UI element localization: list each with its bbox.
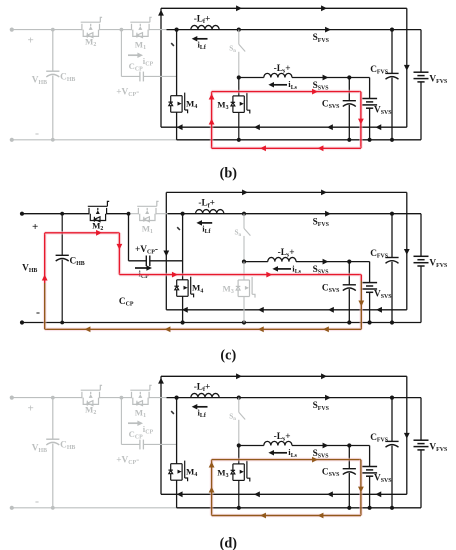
wire M4 drain vertical (b)	[176, 30, 178, 96]
wire M4 source vertical	[176, 480, 178, 508]
inductor L_f (c)	[196, 210, 224, 214]
brown arrow left	[258, 326, 264, 332]
wire C_CP branch vertical	[120, 398, 122, 445]
red path mid horizontal (c)	[119, 273, 361, 277]
brown arrow left	[165, 326, 171, 332]
red path arrow right	[96, 230, 102, 236]
node M3 source on bottom rail	[237, 138, 241, 142]
arrow on input rail	[325, 27, 331, 33]
node bottom-left V_HB - terminal	[20, 320, 24, 324]
transistor M4 (b)	[168, 93, 187, 114]
svg-text:iLs: iLs	[288, 447, 297, 459]
svg-text:VSVS: VSVS	[374, 105, 392, 116]
node C_HB top	[60, 212, 64, 216]
loop arrow left	[260, 145, 266, 151]
loop arrow down	[358, 119, 364, 125]
red path V_HB+ vertical (c)	[43, 233, 47, 283]
transistor M2 (b)	[81, 17, 102, 37]
svg-text:VFVS: VFVS	[429, 442, 448, 453]
wire outer left vertical (c)	[165, 192, 167, 309]
node S switch top	[237, 28, 241, 32]
wire inner return rail (d)	[161, 493, 407, 495]
svg-text:M1: M1	[135, 39, 146, 51]
wire top rail circuit (b)	[161, 7, 407, 9]
capacitor C_CP plates	[145, 256, 147, 267]
node V_HB + terminal	[10, 396, 14, 400]
node L_s left / M3 drain	[242, 260, 246, 264]
node C_FVS top	[390, 396, 394, 400]
current arrow i_CP	[128, 422, 140, 424]
node V_HB + terminal	[20, 212, 24, 216]
current loop right vertical (b)	[359, 92, 363, 149]
arrow on top rail	[321, 5, 327, 11]
wire input rail gray segment through M1	[129, 213, 139, 215]
wire bottom rail left segment (b)	[12, 139, 177, 141]
inductor L_f (b)	[191, 25, 219, 29]
arrow on L_s rail	[323, 259, 329, 265]
wire input rail gray segment / V_HB+ rail (b)	[12, 29, 82, 31]
brown return bottom horizontal (c)	[45, 327, 362, 331]
capacitor C_HB (d)	[52, 398, 54, 440]
svg-text:VHB: VHB	[32, 443, 47, 454]
wire inner return rail (b)	[161, 126, 407, 128]
node M3 source on bottom rail	[237, 506, 241, 510]
arrow left on inner return rail	[375, 124, 381, 130]
svg-text:-Lf+: -Lf+	[198, 199, 215, 210]
wire C_CP branch horizontal	[129, 260, 147, 262]
inductor L_s (c)	[268, 257, 296, 261]
wire outer right vertical (c)	[406, 192, 408, 309]
current loop top horizontal (d)	[212, 458, 361, 462]
current arrow i_CP	[128, 54, 140, 56]
arrow down on outer right vertical	[404, 65, 410, 71]
loop arrow up	[209, 94, 215, 100]
svg-text:iLf: iLf	[202, 224, 211, 236]
node M1/M2/C_CP junction	[120, 28, 124, 32]
node V_SVS bottom	[368, 320, 372, 324]
current loop top horizontal (b)	[212, 90, 361, 94]
current loop bottom horizontal (d)	[212, 514, 361, 518]
wire input rail black segment	[167, 29, 422, 31]
wire bottom rail black segment (d)	[177, 507, 421, 509]
loop arrow down	[358, 487, 364, 493]
arrow left on inner return rail	[254, 124, 260, 130]
node C_HB bottom	[51, 138, 55, 142]
wire L_s rail (c)	[244, 261, 268, 263]
wire L_s rail (d)	[239, 445, 264, 447]
svg-text:CCP: CCP	[129, 429, 143, 441]
svg-text:CHB: CHB	[60, 72, 75, 83]
loop arrow left	[260, 513, 266, 519]
switch S_n (b)	[238, 30, 240, 45]
svg-text:CFVS: CFVS	[370, 249, 389, 260]
battery V_FVS (c)	[420, 214, 422, 257]
svg-text:CCP: CCP	[129, 61, 143, 73]
svg-text:CFVS: CFVS	[370, 433, 389, 444]
switch blade tick S_m	[171, 411, 174, 414]
transistor M2 (d)	[81, 385, 102, 405]
capacitor C_HB (b)	[52, 30, 54, 72]
arrow up on outer left vertical	[158, 10, 164, 16]
node S switch top	[237, 396, 241, 400]
svg-text:-Lf+: -Lf+	[194, 383, 211, 394]
wire input rail black segment	[167, 397, 422, 399]
node C_SVS top	[347, 75, 351, 79]
transistor M3 (d)	[231, 461, 250, 482]
svg-text:CSVS: CSVS	[322, 284, 340, 295]
transistor M3 (c)	[236, 277, 255, 298]
node L_s left / M3 drain	[237, 75, 241, 79]
capacitor C_FVS (d)	[391, 398, 393, 442]
svg-text:+: +	[28, 35, 34, 47]
arrow down on outer right vertical	[404, 249, 410, 255]
red path right vertical top (c)	[359, 275, 363, 281]
wire input rail gray segment / V_HB+ rail (c)	[22, 213, 89, 215]
wire C_CP branch horizontal	[121, 443, 139, 445]
capacitor C_HB (c)	[61, 214, 63, 256]
svg-text:-Ls+: -Ls+	[274, 64, 291, 75]
current arrow i_Lf	[195, 406, 207, 408]
current arrow i_Ls	[272, 84, 287, 86]
svg-text:VSVS: VSVS	[374, 473, 392, 484]
arrow on top rail	[242, 190, 248, 196]
svg-text:-: -	[36, 305, 40, 319]
wire top rail circuit (d)	[161, 375, 407, 377]
red path arrow down	[117, 244, 123, 250]
current loop right vertical (d)	[359, 460, 363, 516]
loop arrow left	[318, 145, 324, 151]
red path arrow right	[172, 272, 178, 278]
svg-text:(c): (c)	[220, 347, 236, 363]
wire bottom rail left segment (c)	[22, 322, 183, 324]
node bottom-left V_HB - terminal	[10, 138, 14, 142]
transistor M1 (d)	[130, 385, 151, 405]
svg-text:M3: M3	[217, 99, 228, 111]
svg-text:-Lf+: -Lf+	[194, 15, 211, 26]
switch S_n (c)	[243, 214, 245, 229]
node L_f / M4 drain	[181, 212, 185, 216]
svg-text:M2: M2	[85, 404, 96, 416]
wire M3 drain vertical (c)	[243, 262, 245, 280]
node M1/M2/C_CP junction	[120, 396, 124, 400]
wire outer left vertical (b)	[160, 8, 162, 127]
battery V_FVS (b)	[420, 30, 422, 73]
svg-text:iLf: iLf	[198, 39, 207, 51]
node V_SVS bottom	[368, 506, 372, 510]
svg-text:VHB: VHB	[32, 75, 47, 86]
svg-text:CCP: CCP	[119, 297, 134, 308]
node C_SVS bottom	[347, 506, 351, 510]
wire outer left vertical (d)	[160, 376, 162, 494]
wire M4 drain vertical (d)	[176, 398, 178, 464]
wire inner return rail (c)	[166, 309, 406, 311]
arrow on top rail	[321, 190, 327, 196]
arrow on L_s rail	[323, 75, 329, 81]
battery V_SVS (c)	[369, 262, 371, 283]
switch blade tick S_m	[171, 43, 174, 46]
wire C_CP branch vertical	[120, 30, 122, 77]
node C_SVS bottom	[347, 138, 351, 142]
loop arrow right	[312, 89, 318, 95]
transistor M2 (c)	[88, 201, 109, 221]
arrow left on inner return rail	[177, 124, 183, 130]
node C_FVS bottom	[390, 138, 394, 142]
red path arrow right	[266, 272, 272, 278]
current arrow i_Lf	[200, 222, 212, 224]
node C_HB bottom	[60, 321, 64, 325]
capacitor C_SVS (d)	[348, 446, 350, 469]
node C_SVS top	[347, 260, 351, 264]
svg-text:+VCP-: +VCP-	[135, 245, 158, 256]
node C_HB bottom	[51, 506, 55, 510]
wire M3 source vertical	[238, 112, 240, 139]
wire outer right vertical (d)	[406, 376, 408, 494]
svg-text:M3: M3	[217, 467, 228, 479]
svg-text:Sn: Sn	[229, 413, 236, 423]
svg-text:iLs: iLs	[288, 79, 297, 91]
node L_f / M4 drain	[175, 28, 179, 32]
node C_FVS top	[390, 28, 394, 32]
inductor L_f (d)	[191, 393, 219, 397]
current arrow i_Ls	[276, 268, 291, 270]
svg-text:CHB: CHB	[60, 440, 75, 451]
svg-text:M2: M2	[92, 220, 103, 232]
svg-text:Sn: Sn	[235, 229, 242, 239]
arrow on input rail	[325, 395, 331, 401]
arrow on L_s rail	[323, 443, 329, 449]
wire bottom rail black segment (b)	[177, 139, 421, 141]
svg-text:iLf: iLf	[198, 407, 207, 419]
svg-text:SFVS: SFVS	[313, 401, 330, 412]
wire L_s rail (b)	[239, 77, 264, 79]
svg-text:iCP: iCP	[143, 56, 154, 68]
svg-text:(b): (b)	[220, 165, 238, 181]
svg-text:CHB: CHB	[70, 256, 85, 267]
red path mid vertical (c)	[118, 233, 122, 275]
wire M3 drain vertical (d)	[238, 446, 240, 464]
svg-text:-: -	[35, 126, 39, 140]
arrow left on inner return rail	[254, 491, 260, 497]
current arrow i_Ls	[272, 452, 287, 454]
svg-text:VFVS: VFVS	[429, 74, 448, 85]
arrow left on inner return rail	[182, 307, 188, 313]
transistor M3 (b)	[231, 93, 250, 114]
capacitor C_FVS (c)	[391, 214, 393, 258]
svg-text:+VCP-: +VCP-	[116, 455, 139, 466]
arrow on top rail	[236, 373, 242, 379]
battery V_SVS (d)	[369, 446, 371, 467]
brown arrow left	[323, 326, 329, 332]
node C_HB top	[51, 396, 55, 400]
node L_s left / M3 drain	[237, 443, 241, 447]
svg-text:SFVS: SFVS	[313, 33, 330, 44]
capacitor C_SVS (c)	[348, 262, 350, 285]
svg-text:VSVS: VSVS	[374, 290, 392, 301]
svg-text:M4: M4	[186, 99, 197, 111]
capacitor C_CP	[139, 72, 141, 82]
node C_SVS bottom	[347, 320, 351, 324]
arrow left on inner return rail	[376, 307, 382, 313]
battery V_FVS (d)	[420, 398, 422, 441]
node V_HB + terminal	[10, 28, 14, 32]
inductor L_s (d)	[264, 441, 292, 445]
battery V_SVS (b)	[369, 78, 371, 99]
arrow left on inner return rail	[327, 491, 333, 497]
arrow left on inner return rail	[375, 491, 381, 497]
arrow left on inner return rail	[258, 307, 264, 313]
node C_FVS top	[390, 212, 394, 216]
arrow on top rail	[236, 5, 242, 11]
wire M4 drain vertical (c)	[182, 214, 184, 280]
current loop left vertical (d)	[210, 460, 214, 516]
svg-text:-: -	[35, 494, 39, 508]
arrow left on inner return rail	[177, 491, 183, 497]
capacitor C_CP	[139, 440, 141, 450]
wire M3 source vertical	[243, 297, 245, 323]
node S switch top	[242, 212, 246, 216]
brown return left vertical (c)	[43, 283, 47, 329]
node C_HB top	[51, 28, 55, 32]
loop arrow up	[209, 119, 215, 125]
wire bottom rail black segment (c)	[183, 322, 421, 324]
transistor M1 (b)	[130, 17, 151, 37]
wire bottom rail left segment (d)	[12, 507, 177, 509]
red path top horizontal (c)	[45, 231, 120, 235]
arrow left on inner return rail	[327, 124, 333, 130]
loop arrow up	[209, 487, 215, 493]
svg-text:-Ls+: -Ls+	[274, 432, 291, 443]
current loop bottom horizontal (b)	[212, 147, 361, 151]
loop arrow right	[312, 457, 318, 463]
svg-text:iCP: iCP	[143, 424, 154, 436]
wire input rail gray segment / V_HB+ rail (d)	[12, 397, 82, 399]
svg-text:M2: M2	[85, 36, 96, 48]
transistor M4 (d)	[168, 461, 187, 482]
svg-text:VFVS: VFVS	[429, 258, 448, 269]
arrow on input rail	[325, 211, 331, 217]
arrow down on outer right vertical	[404, 433, 410, 439]
loop arrow left	[318, 513, 324, 519]
node L_f / M4 drain	[175, 396, 179, 400]
arrow left on inner return rail	[328, 307, 334, 313]
brown arrow down	[358, 301, 364, 307]
node M4 source on bottom rail	[181, 320, 185, 324]
svg-text:+: +	[32, 221, 38, 233]
transistor M4 (c)	[174, 277, 193, 298]
svg-text:M3: M3	[223, 283, 234, 295]
node bottom-left V_HB - terminal	[10, 506, 14, 510]
arrow up on outer left vertical	[158, 378, 164, 384]
wire M4 source vertical	[176, 112, 178, 140]
svg-text:M4: M4	[186, 467, 197, 479]
capacitor C_FVS (b)	[391, 30, 393, 74]
current loop left vertical (b)	[210, 92, 214, 149]
svg-text:M1: M1	[135, 407, 146, 419]
node C_SVS top	[347, 443, 351, 447]
svg-text:M4: M4	[192, 283, 203, 295]
svg-text:+: +	[28, 403, 34, 415]
wire outer right vertical (b)	[406, 8, 408, 127]
svg-text:+VCP-: +VCP-	[116, 87, 139, 98]
wire C_CP branch vertical	[128, 214, 130, 261]
node C_FVS bottom	[390, 320, 394, 324]
svg-text:Sn: Sn	[229, 45, 236, 55]
svg-text:(d): (d)	[220, 536, 238, 550]
current arrow i_CP	[135, 267, 149, 269]
wire M3 source vertical	[238, 480, 240, 507]
svg-text:CSVS: CSVS	[322, 467, 340, 478]
node V_SVS bottom	[368, 138, 372, 142]
inductor L_s (b)	[264, 73, 292, 77]
svg-text:SFVS: SFVS	[313, 217, 330, 228]
wire top rail circuit (c)	[166, 191, 406, 193]
wire M3 drain vertical (b)	[238, 78, 240, 96]
transistor M1 (c)	[137, 201, 158, 221]
wire C_CP branch horizontal	[121, 75, 139, 77]
switch S_n (d)	[238, 398, 240, 413]
svg-text:CFVS: CFVS	[370, 65, 389, 76]
svg-text:-Ls+: -Ls+	[278, 248, 295, 259]
brown arrow left	[85, 326, 91, 332]
node M1/M2/C_CP junction	[127, 212, 131, 216]
brown return right vertical (c)	[359, 281, 363, 330]
wire M4 source vertical	[182, 296, 184, 322]
arrow on top rail	[321, 373, 327, 379]
red path arrow up	[42, 275, 48, 281]
switch blade tick S_m	[177, 227, 180, 230]
node M3 source on bottom rail	[242, 320, 246, 324]
svg-text:M1: M1	[142, 224, 153, 236]
loop arrow up	[209, 462, 215, 468]
arrow down on outer left vertical	[163, 251, 169, 257]
current arrow i_Lf	[195, 38, 207, 40]
wire input rail black segment	[168, 213, 422, 215]
svg-text:VHB: VHB	[22, 264, 37, 275]
capacitor C_SVS (b)	[348, 78, 350, 101]
svg-text:CSVS: CSVS	[322, 99, 340, 110]
node C_FVS bottom	[390, 506, 394, 510]
